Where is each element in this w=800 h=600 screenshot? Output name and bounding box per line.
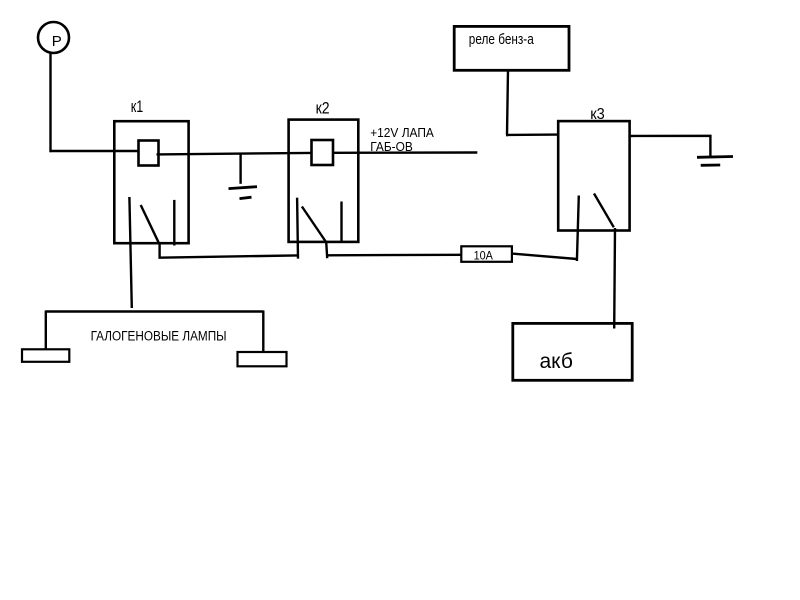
- wire k1 arm drop: [158, 243, 160, 259]
- relay K2 coil: [312, 140, 334, 165]
- svg-text:+12V ЛАПА: +12V ЛАПА: [370, 126, 434, 140]
- svg-text:к2: к2: [316, 100, 330, 118]
- svg-text:к1: к1: [131, 98, 144, 116]
- pushbutton P: [38, 22, 69, 53]
- wire k1 arm to k2 contact: [159, 255, 298, 257]
- lamp left: [22, 349, 69, 362]
- wire k2 coil to right end: [333, 151, 477, 154]
- relay K1 body: [114, 121, 188, 243]
- relay K2 contact pin right: [340, 202, 342, 244]
- svg-text:ГАБ-ОВ: ГАБ-ОВ: [370, 140, 413, 154]
- wire k2 arm drop: [326, 242, 327, 258]
- relay K2 switch arm: [302, 207, 326, 242]
- wire node to k1 coil: [50, 150, 139, 152]
- relay K1 contact pin left: [129, 197, 131, 308]
- relay K3 contact pin left: [577, 196, 579, 262]
- relay box реле бенз-а: [454, 26, 569, 70]
- wire k1 down to lamps junction: [46, 310, 264, 312]
- battery box акб: [513, 323, 632, 380]
- relay K2 contact pin left: [296, 198, 299, 259]
- svg-text:10А: 10А: [474, 248, 493, 262]
- wire lamp bus left drop: [45, 311, 47, 350]
- relay K2 body: [289, 120, 359, 242]
- svg-text:реле бенз-а: реле бенз-а: [469, 32, 535, 48]
- relay K3 switch arm: [594, 194, 614, 228]
- wire from P down to node: [49, 53, 52, 151]
- wire k3 right to ground: [630, 136, 711, 157]
- wire into k3 left: [506, 133, 559, 136]
- wire реле бенз-а to k3: [507, 70, 509, 136]
- wire k2 arm to fuse: [327, 254, 461, 257]
- wire k1 coil to k2 coil: [157, 153, 312, 155]
- svg-text:акб: акб: [540, 350, 573, 373]
- relay K1 coil: [139, 141, 159, 166]
- svg-text:Р: Р: [52, 33, 62, 50]
- wire k3 arm to акб: [613, 228, 616, 329]
- relay K3 body: [558, 121, 629, 230]
- wire lamp bus right drop: [262, 311, 264, 353]
- svg-text:ГАЛОГЕНОВЫЕ ЛАМПЫ: ГАЛОГЕНОВЫЕ ЛАМПЫ: [91, 329, 227, 344]
- label +12V ЛАПА ГАБ-ОВ: [370, 126, 434, 154]
- wire fuse to k3 contact: [512, 254, 577, 259]
- lamp right: [238, 352, 287, 366]
- relay K1 switch arm: [141, 205, 159, 243]
- relay K1 contact pin right: [173, 200, 175, 246]
- ground (between K1 and K2): [229, 154, 258, 199]
- fuse 10A box: [461, 246, 512, 261]
- ground (right of K3): [697, 157, 733, 166]
